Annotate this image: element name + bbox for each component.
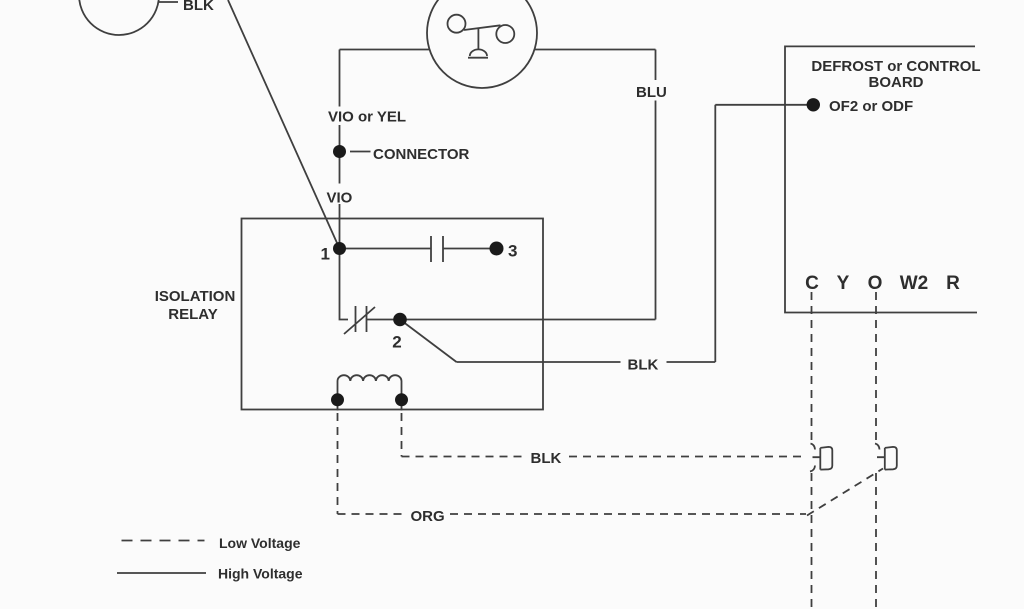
defrost thermostat arm	[464, 25, 501, 30]
legend solid line (high voltage)	[117, 572, 206, 574]
svg-text:RELAY: RELAY	[168, 306, 217, 323]
svg-text:High Voltage: High Voltage	[218, 566, 303, 582]
svg-text:BLK: BLK	[628, 357, 659, 374]
node 2 dot	[393, 313, 407, 327]
svg-text:VIO: VIO	[327, 190, 353, 207]
dashed wire diagonal to O connector	[807, 469, 883, 516]
defrost thermostat stem	[477, 28, 479, 51]
svg-text:ORG: ORG	[411, 508, 445, 525]
connector dot	[333, 145, 346, 158]
node 1 dot	[333, 242, 346, 255]
svg-text:Y: Y	[837, 273, 850, 294]
wire to OF2 terminal	[715, 104, 813, 106]
NC contact slash	[344, 307, 375, 334]
OF2 terminal dot	[807, 98, 820, 111]
wire BLK vertical up	[714, 105, 716, 362]
dashed low-voltage wires	[122, 292, 884, 609]
dashed wire BLK right segment	[569, 456, 806, 458]
NC contact bar 2	[366, 306, 368, 332]
dashed wire below O connector	[875, 473, 877, 609]
wire capacitor to node 3	[443, 248, 497, 250]
wire BLK horizontal left segment	[457, 361, 621, 363]
wire from motor to BLK label	[159, 1, 178, 3]
coil left solid stub	[337, 400, 339, 411]
defrost thermostat bimetal dome	[470, 49, 487, 56]
legend dashed line (low voltage)	[122, 540, 205, 542]
svg-text:3: 3	[508, 242, 517, 261]
defrost thermostat left contact circle	[448, 15, 466, 33]
wire from thermostat right toward BLU	[535, 49, 656, 51]
capacitor C1 plate right	[442, 236, 444, 262]
wire contact to node 2	[367, 319, 401, 321]
svg-text:W2: W2	[900, 273, 929, 294]
wire node1 down to NC contact	[340, 249, 349, 320]
svg-text:1: 1	[321, 245, 330, 264]
quick-connect terminal at C (male blade + hooks)	[810, 444, 820, 472]
wire BLK diagonal from top to node 1	[228, 0, 340, 249]
defrost thermostat outer circle	[427, 0, 537, 88]
svg-text:DEFROST or CONTROL: DEFROST or CONTROL	[811, 58, 980, 75]
NC contact bar 1	[355, 306, 357, 332]
svg-text:CONNECTOR: CONNECTOR	[373, 146, 470, 163]
connector tick	[350, 151, 371, 153]
quick-connect terminal at O (female)	[885, 447, 897, 470]
wire BLU vertical (interrupted by label)	[655, 50, 657, 320]
node 3 dot	[490, 242, 504, 256]
svg-text:2: 2	[392, 333, 401, 352]
wire from thermostat left to VIO vertical	[340, 49, 430, 51]
svg-text:BOARD: BOARD	[869, 74, 924, 91]
dashed wire from C terminal down	[811, 292, 813, 443]
wire node 2 to BLU vertical	[400, 319, 656, 321]
svg-text:R: R	[946, 273, 960, 294]
dashed wire from coil left down	[337, 413, 339, 514]
coil right solid stub	[401, 400, 403, 411]
dashed wire ORG right segment	[450, 513, 806, 515]
defrost thermostat right contact circle	[496, 25, 514, 43]
quick-connect terminal at O (male blade + hooks)	[875, 444, 884, 458]
svg-text:O: O	[868, 273, 883, 294]
dashed wire below C connector	[811, 473, 813, 609]
junction dots	[331, 98, 820, 406]
wire node 2 diagonal down	[400, 320, 457, 363]
defrost board outline	[785, 46, 977, 312]
svg-text:C: C	[805, 273, 819, 294]
dashed wire ORG left segment	[338, 513, 405, 515]
dashed wire from O terminal down	[875, 292, 877, 443]
coil left dot	[331, 393, 344, 406]
dashed wire from coil right down	[401, 413, 403, 457]
svg-text:OF2 or ODF: OF2 or ODF	[829, 98, 913, 115]
relay coil	[338, 375, 402, 400]
svg-text:BLU: BLU	[636, 84, 667, 101]
compressor motor (partial circle, top left)	[79, 0, 159, 35]
svg-text:BLK: BLK	[531, 450, 562, 467]
wire VIO vertical down to node 1 (interrupted by labels)	[339, 50, 341, 249]
svg-text:ISOLATION: ISOLATION	[155, 288, 236, 305]
svg-text:Low Voltage: Low Voltage	[219, 535, 301, 551]
svg-text:BLK: BLK	[183, 0, 214, 14]
isolation relay box	[242, 219, 544, 410]
defrost thermostat base line	[468, 57, 488, 59]
svg-text:VIO or YEL: VIO or YEL	[328, 109, 406, 126]
coil right dot	[395, 393, 408, 406]
capacitor C1 plate left	[430, 236, 432, 262]
dashed wire BLK left segment	[402, 456, 525, 458]
quick-connect terminal at C (female)	[820, 447, 832, 470]
wire BLK horizontal right segment	[667, 361, 716, 363]
wire node1 to capacitor	[340, 248, 432, 250]
